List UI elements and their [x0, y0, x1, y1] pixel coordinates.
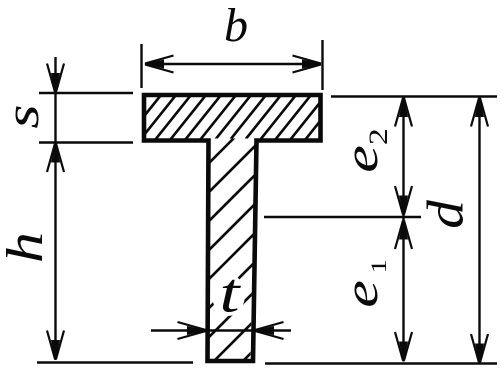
arrow b left: [144, 56, 174, 73]
dimension line b: [145, 63, 321, 65]
arrow t left-pointing at web right: [254, 322, 284, 339]
arrow e2 down at centroid: [395, 186, 412, 216]
dimension line t: [151, 329, 291, 331]
extension line s bottom: [39, 141, 133, 143]
arrow e2 up: [395, 97, 412, 127]
top right extension line: [331, 95, 497, 97]
dimension line s and h: [54, 57, 56, 360]
centroid line: [264, 216, 421, 218]
svg-text:h: h: [0, 232, 54, 263]
dimension line e2/e1: [402, 97, 404, 362]
bottom extension line left: [37, 361, 193, 363]
arrow s/h up at flange bottom: [47, 143, 64, 173]
dimension line d: [478, 97, 480, 364]
arrow e1 up at centroid: [395, 220, 412, 250]
arrow d down: [471, 334, 488, 364]
arrow t right-pointing at web left: [178, 322, 208, 339]
label t halo: [212, 274, 245, 316]
arrow b right: [293, 56, 323, 73]
T-section body fill: [144, 95, 321, 361]
extension line b left: [140, 44, 142, 88]
svg-text:t: t: [220, 263, 242, 325]
arrow e1 down at bottom: [395, 332, 412, 362]
svg-text:b: b: [224, 0, 248, 52]
extension line b right: [321, 40, 323, 90]
hatching flange: [110, 95, 341, 140]
svg-text:s: s: [0, 104, 49, 128]
arrow d up: [471, 97, 488, 127]
hatching web: [200, 108, 264, 372]
svg-text:d: d: [416, 199, 474, 228]
bottom extension line right: [265, 362, 497, 364]
arrow s down: [47, 64, 64, 94]
extension line s top: [39, 92, 133, 94]
T-section outline: [144, 95, 321, 361]
arrow h down at bottom: [47, 331, 64, 361]
